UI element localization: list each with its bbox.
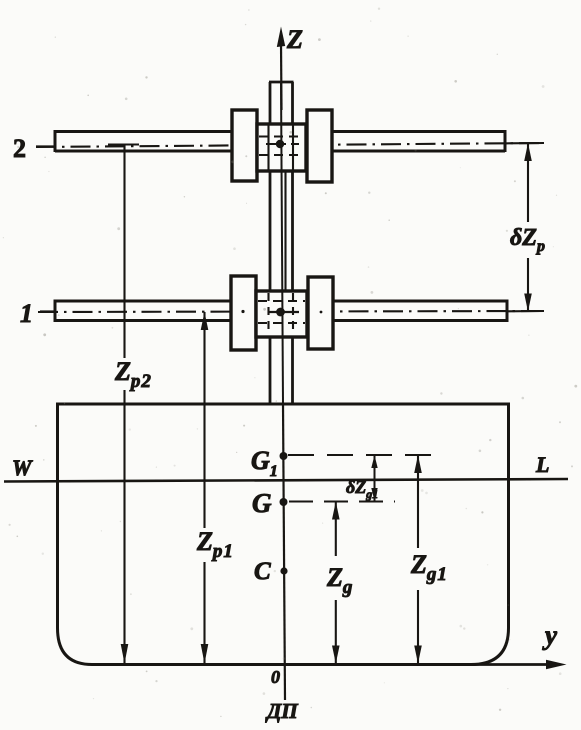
wire shaft 2 lower edge: [55, 150, 505, 153]
wire hub 1 dashed lower line: [258, 322, 305, 324]
dimension Zp2 line: [123, 145, 125, 358]
svg-text:ДП: ДП: [265, 699, 298, 723]
wire shaft 2 right end cap: [504, 130, 507, 152]
wire Z-axis vertical centerline upper: [280, 42, 283, 110]
node G point: [280, 498, 288, 506]
node y-axis arrowhead: [546, 660, 567, 669]
wire column top cap: [269, 81, 294, 84]
component hub 1 right flange: [308, 277, 333, 349]
wire main vertical centerline through hull: [283, 404, 285, 700]
wire shaft 1 upper edge: [55, 300, 507, 303]
node G1 point: [280, 452, 288, 460]
svg-text:2: 2: [13, 134, 26, 163]
svg-text:C: C: [254, 558, 271, 585]
wire G1 dashed level line: [288, 454, 441, 456]
dimension dZp line: [527, 143, 529, 222]
node hub 2 center dot: [276, 140, 284, 148]
node hub 1 right flange mark: [320, 311, 323, 314]
component hub 2 left flange: [232, 110, 257, 181]
wire shaft 1 left end cap: [54, 300, 57, 323]
wire label 2 tick: [36, 145, 54, 147]
svg-text:y: y: [542, 620, 558, 650]
wire shaft 1 centerline extension at right end: [506, 310, 544, 312]
svg-text:1: 1: [20, 299, 33, 328]
svg-text:0: 0: [271, 667, 280, 687]
wire hub 2 dashed upper line: [259, 135, 304, 137]
node Z-axis arrowhead: [277, 27, 285, 48]
component hub 1 left flange: [231, 276, 256, 350]
wire hub 2 dashed lower line: [259, 154, 304, 156]
wire hub 2 vertical through-lines: [267, 124, 269, 171]
svg-text:Z: Z: [286, 25, 303, 54]
dimension Zg line: [335, 502, 337, 557]
wire label 1 tick: [40, 310, 54, 312]
wire main vertical centerline through hubs: [281, 82, 283, 404]
component hull cross-section outline: [58, 404, 509, 665]
wire column left edge: [269, 82, 272, 404]
wire hub 1 dashed upper line: [258, 300, 305, 302]
wire shaft 2 upper edge: [55, 130, 505, 133]
wire waterline WL: [4, 479, 568, 482]
wire shaft 2 centerline extension at right end: [504, 142, 544, 144]
node hub 1 left flange mark: [241, 310, 244, 313]
wire baseline y-axis extension: [471, 663, 558, 666]
wire shaft 1 lower edge: [55, 319, 507, 322]
wire hub 1 dashed vertical right: [292, 293, 294, 335]
wire shaft 2 left end cap: [54, 130, 57, 152]
wire shaft 1 dash-dot centerline: [38, 311, 543, 312]
wire hub 1 center horizontal: [269, 311, 299, 313]
svg-text:G: G: [252, 488, 272, 518]
wire shaft 1 right end cap: [506, 300, 509, 323]
component hub 1 body: [256, 291, 307, 337]
dimension Zp1 line: [203, 312, 205, 528]
wire shaft 2 dash-dot centerline: [36, 143, 543, 147]
wire column inner line between hubs: [284, 171, 286, 291]
wire column right edge: [291, 82, 294, 404]
component hub 2 body: [257, 124, 306, 171]
wire G dashed level line: [289, 501, 395, 503]
wire hub 2 center horizontal: [266, 143, 299, 145]
component hub 2 right flange: [307, 110, 332, 182]
node C point: [280, 567, 287, 574]
dimension dZg1 line: [374, 455, 376, 501]
node hub 1 center dot: [276, 308, 285, 317]
svg-text:W: W: [12, 455, 33, 480]
dimension Zg1 line: [417, 455, 419, 548]
wire hub 1 dashed vertical left: [267, 293, 269, 335]
svg-text:L: L: [535, 452, 549, 477]
